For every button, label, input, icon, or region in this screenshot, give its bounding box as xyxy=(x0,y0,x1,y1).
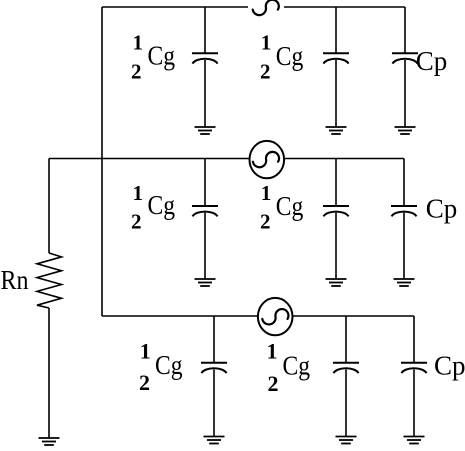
ground (row1 col3) xyxy=(395,127,416,134)
value label Cp (row 3) xyxy=(434,350,465,380)
svg-text:2: 2 xyxy=(260,209,271,233)
AC source (inline sine) top xyxy=(253,0,279,15)
wire cap lead row3 col1 upper xyxy=(213,316,215,362)
wire cap lead row2 col2 lower xyxy=(335,213,337,279)
wire cap lead row3 col2 upper xyxy=(345,316,347,362)
svg-text:2: 2 xyxy=(260,59,271,83)
wire Rn branch upper lead xyxy=(48,159,50,254)
svg-text:Rn: Rn xyxy=(1,265,29,295)
wire cap lead row1 col2 lower xyxy=(335,60,337,127)
svg-text:2: 2 xyxy=(268,371,279,396)
wire cap lead row1 col2 upper xyxy=(335,7,337,53)
ground (row1 col2) xyxy=(326,127,347,134)
wire cap lead row2 col3 lower xyxy=(403,213,405,279)
svg-text:1: 1 xyxy=(267,339,278,364)
wire cap lead row3 col3 upper xyxy=(413,316,415,362)
wire bottom rail right segment xyxy=(292,315,414,317)
ground (row2 col1) xyxy=(195,279,216,286)
svg-text:2: 2 xyxy=(131,209,142,233)
svg-text:1: 1 xyxy=(133,30,144,54)
wire cap lead row1 col3 lower xyxy=(404,60,406,127)
wire cap lead row2 col3 upper xyxy=(403,159,405,206)
capacitor C6 (Cp, row 2 col 3) xyxy=(391,206,417,216)
wire top rail left segment xyxy=(102,6,248,8)
value label Cp (row 2) xyxy=(426,193,458,223)
wire cap lead row2 col2 upper xyxy=(335,159,337,206)
svg-text:Cg: Cg xyxy=(155,350,183,380)
wire cap lead row3 col2 lower xyxy=(345,370,347,437)
value label 1/2 Cg (row 3 col 2) xyxy=(267,339,311,396)
svg-text:1: 1 xyxy=(133,181,144,205)
ground (row1 col1) xyxy=(195,127,216,134)
svg-text:1: 1 xyxy=(261,181,272,205)
capacitor C8 (1/2 Cg, row 3 col 2) xyxy=(333,363,359,373)
svg-text:2: 2 xyxy=(139,370,150,395)
svg-text:Cg: Cg xyxy=(276,41,304,71)
wire Rn lower lead xyxy=(48,308,50,438)
svg-text:Cg: Cg xyxy=(276,191,304,221)
svg-text:Cg: Cg xyxy=(148,190,176,220)
wire cap lead row1 col1 upper xyxy=(204,7,206,53)
capacitor C2 (1/2 Cg, row 1 col 2) xyxy=(323,53,349,63)
ground (row3 col1) xyxy=(204,437,225,444)
wire cap lead row1 col3 upper xyxy=(404,7,406,53)
value label 1/2 Cg (row 1 col 1) xyxy=(131,30,175,83)
capacitor C5 (1/2 Cg, row 2 col 2) xyxy=(323,206,349,216)
ground (row2 col2) xyxy=(326,279,347,286)
wire cap lead row1 col1 lower xyxy=(204,60,206,127)
svg-text:1: 1 xyxy=(140,339,151,364)
svg-text:Cp: Cp xyxy=(426,193,458,223)
svg-text:2: 2 xyxy=(131,59,142,83)
capacitor C7 (1/2 Cg, row 3 col 1) xyxy=(201,363,227,373)
wire middle rail left segment xyxy=(49,158,250,160)
svg-text:Cg: Cg xyxy=(283,350,311,380)
wire cap lead row2 col1 upper xyxy=(204,159,206,206)
value label 1/2 Cg (row 1 col 2) xyxy=(260,30,303,83)
value label 1/2 Cg (row 2 col 1) xyxy=(131,181,175,233)
wire top rail right segment xyxy=(284,6,405,8)
svg-text:Cp: Cp xyxy=(416,46,448,76)
wire cap lead row2 col1 lower xyxy=(204,213,206,279)
ground (row3 col2) xyxy=(336,437,357,444)
capacitor C4 (1/2 Cg, row 2 col 1) xyxy=(192,206,218,216)
wire bottom rail left segment xyxy=(102,315,259,317)
resistor Rn xyxy=(37,253,62,308)
ground (row3 col3) xyxy=(404,437,425,444)
ground (Rn) xyxy=(39,438,60,445)
svg-text:Cg: Cg xyxy=(148,40,176,70)
capacitor C9 (Cp, row 3 col 3) xyxy=(401,363,427,373)
value label Cp (row 1) xyxy=(416,46,448,76)
AC source V2 (bottom row) xyxy=(258,298,293,335)
capacitor C1 (1/2 Cg, row 1 col 1) xyxy=(192,53,218,63)
wire middle rail right segment xyxy=(284,158,404,160)
label Rn xyxy=(1,265,29,295)
AC source V1 (middle row) xyxy=(249,141,284,178)
ground (row2 col3) xyxy=(394,279,415,286)
capacitor C3 (Cp, row 1 col 3) xyxy=(392,53,418,63)
wire cap lead row3 col1 lower xyxy=(213,370,215,437)
svg-text:1: 1 xyxy=(261,30,272,54)
value label 1/2 Cg (row 3 col 1) xyxy=(139,339,183,395)
wire left rail xyxy=(101,7,103,316)
wire cap lead row3 col3 lower xyxy=(413,370,415,437)
value label 1/2 Cg (row 2 col 2) xyxy=(260,181,303,233)
svg-text:Cp: Cp xyxy=(434,350,465,380)
